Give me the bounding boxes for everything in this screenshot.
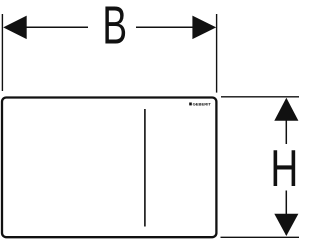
svg-text:H: H	[270, 140, 298, 198]
svg-text:GEBERIT: GEBERIT	[193, 102, 212, 106]
svg-text:B: B	[102, 0, 127, 55]
